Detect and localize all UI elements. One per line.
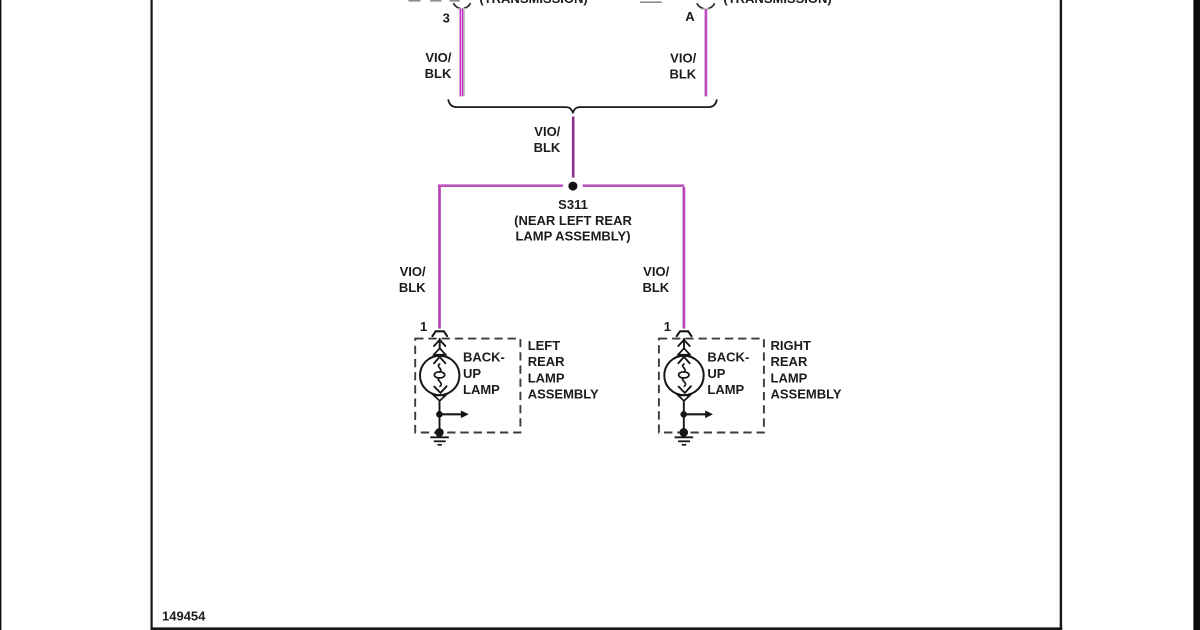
lamp symbol left: [420, 339, 459, 433]
svg-text:(TRANSMISSION): (TRANSMISSION): [479, 0, 587, 6]
splice S311 junction dot: [568, 182, 577, 191]
svg-text:BACK-: BACK-: [707, 350, 749, 365]
svg-text:UP: UP: [707, 366, 725, 381]
transmission dashed-box remnant right: [640, 1, 662, 3]
ground left: [430, 437, 449, 445]
svg-text:REAR: REAR: [771, 354, 808, 369]
svg-text:LEFT: LEFT: [528, 338, 561, 353]
dashed box right rear lamp assembly: [659, 339, 764, 433]
arrow to other circuit right: [684, 413, 706, 415]
svg-text:VIO/: VIO/: [670, 50, 696, 65]
wire horizontal bus left: [438, 184, 563, 187]
junction dot left: [436, 411, 443, 418]
frame bottom line: [151, 627, 1063, 630]
transmission dashed-box remnant left: [409, 0, 460, 2]
svg-text:RIGHT: RIGHT: [771, 338, 812, 353]
lamp symbol right: [664, 339, 703, 433]
svg-text:BLK: BLK: [642, 280, 669, 295]
svg-text:ASSEMBLY: ASSEMBLY: [528, 386, 599, 401]
svg-text:1: 1: [664, 319, 671, 334]
svg-text:A: A: [685, 9, 695, 24]
svg-text:BLK: BLK: [669, 66, 696, 81]
ground right: [675, 437, 694, 445]
frame right black bar: [1193, 0, 1200, 630]
wire splice stub: [572, 117, 575, 178]
splice brace: [448, 99, 717, 112]
svg-text:(NEAR LEFT REAR: (NEAR LEFT REAR: [514, 213, 632, 228]
frame inner left vertical line: [151, 0, 153, 630]
svg-text:BLK: BLK: [534, 140, 561, 155]
connector C left (transmission): [454, 4, 471, 9]
junction dot right: [680, 411, 687, 418]
svg-text:LAMP: LAMP: [771, 370, 808, 385]
arrow to other circuit left: [439, 413, 461, 415]
svg-text:LAMP: LAMP: [707, 382, 744, 397]
svg-text:ASSEMBLY: ASSEMBLY: [771, 386, 842, 401]
svg-text:LAMP: LAMP: [528, 370, 565, 385]
frame left outer edge: [0, 0, 1, 630]
svg-text:149454: 149454: [162, 608, 206, 623]
svg-text:VIO/: VIO/: [425, 50, 451, 65]
ground dot left: [435, 428, 444, 437]
connector hat left lamp: [432, 331, 447, 336]
svg-text:REAR: REAR: [528, 354, 565, 369]
svg-text:BACK-: BACK-: [463, 350, 505, 365]
svg-text:LAMP: LAMP: [463, 382, 500, 397]
connector hat right lamp: [677, 331, 692, 336]
svg-text:S311: S311: [558, 197, 588, 212]
dashed box left rear lamp assembly: [415, 339, 520, 433]
svg-text:BLK: BLK: [399, 280, 426, 295]
wire to left lamp: [438, 187, 441, 329]
connector C right (transmission): [697, 4, 714, 9]
svg-text:VIO/: VIO/: [534, 124, 560, 139]
svg-text:LAMP ASSEMBLY): LAMP ASSEMBLY): [515, 229, 630, 244]
svg-text:VIO/: VIO/: [400, 264, 426, 279]
wire to right lamp: [683, 187, 686, 329]
wire shadow: [463, 10, 465, 96]
wire VIO/BLK from pin A: [705, 9, 708, 96]
svg-text:1: 1: [420, 319, 427, 334]
svg-text:(TRANSMISSION): (TRANSMISSION): [723, 0, 831, 6]
svg-text:VIO/: VIO/: [643, 264, 669, 279]
svg-text:3: 3: [443, 11, 450, 26]
frame inner right vertical line: [1060, 0, 1062, 630]
wire horizontal bus right: [583, 184, 685, 187]
wire VIO/BLK from pin 3 (double line): [460, 9, 462, 97]
ground dot right: [679, 428, 688, 437]
svg-text:BLK: BLK: [425, 66, 452, 81]
svg-text:UP: UP: [463, 366, 481, 381]
